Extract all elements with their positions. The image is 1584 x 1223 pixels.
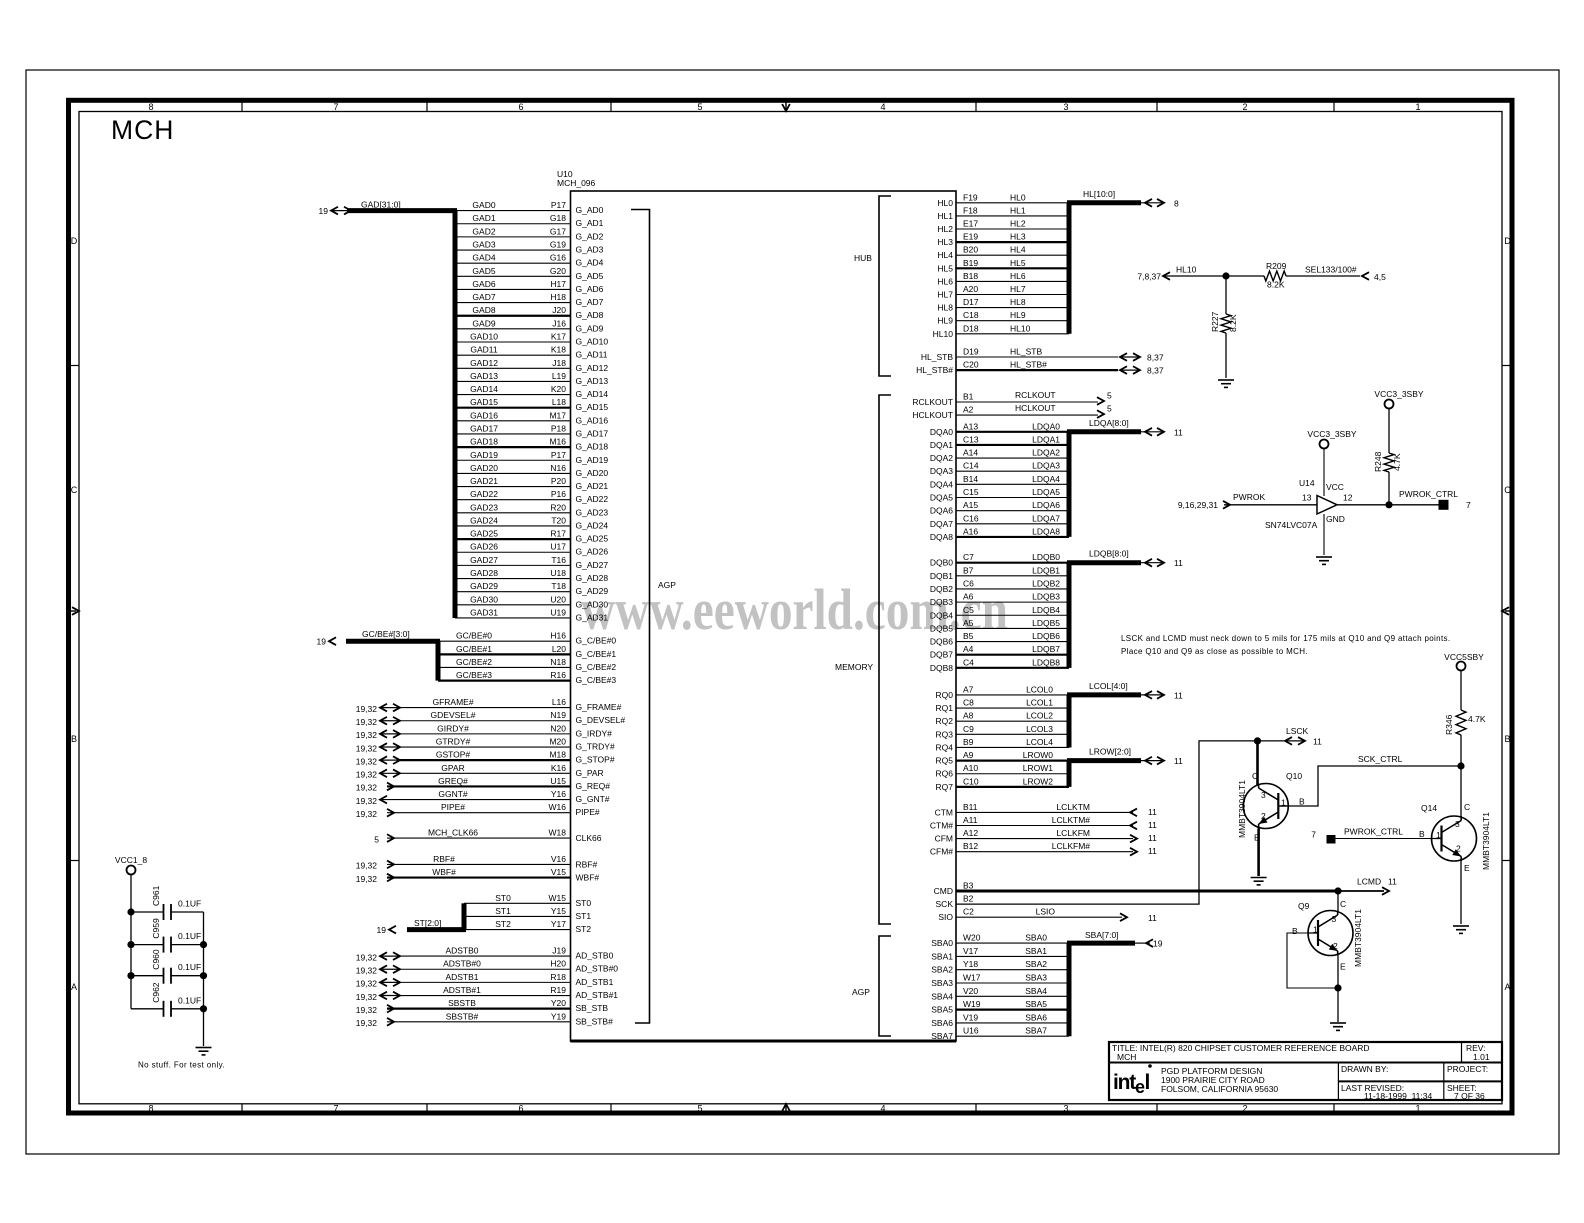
svg-text:G_AD1: G_AD1 [576,218,604,228]
svg-text:8.2K: 8.2K [1228,314,1238,332]
wire GAD5 pin G20 [455,266,604,281]
svg-text:U20: U20 [550,594,566,604]
wire SBA2 pin Y18 [931,959,1069,975]
svg-text:CTM: CTM [935,807,953,817]
svg-text:G_C/BE#2: G_C/BE#2 [576,662,617,672]
svg-text:B: B [1299,797,1305,807]
svg-text:RQ1: RQ1 [936,703,954,713]
svg-text:SBA6: SBA6 [931,1018,953,1028]
svg-text:19,32: 19,32 [356,743,378,753]
svg-text:MCH_CLK66: MCH_CLK66 [428,828,478,838]
svg-text:C15: C15 [963,487,979,497]
svg-text:R16: R16 [550,670,566,680]
svg-text:LDQA1: LDQA1 [1032,434,1060,444]
wire GAD8 pin J20 [455,305,604,320]
svg-text:PWROK: PWROK [1233,492,1265,502]
svg-text:N20: N20 [550,723,566,733]
svg-text:19,32: 19,32 [356,770,378,780]
node SCK_CTRL junction [1457,762,1464,769]
group bracket AGP left [631,210,676,1024]
svg-text:GAD27: GAD27 [470,555,498,565]
svg-text:G19: G19 [550,240,566,250]
svg-text:B3: B3 [963,881,974,891]
bus LROW[2:0] [1067,747,1183,787]
wire DQB6 pin B5 net LDQB6 [930,631,1069,647]
svg-text:G_IRDY#: G_IRDY# [576,728,613,738]
svg-text:SBSTB: SBSTB [448,998,476,1008]
svg-text:7,8,37: 7,8,37 [1137,272,1161,282]
svg-text:R227: R227 [1210,311,1220,332]
svg-text:R209: R209 [1266,261,1287,271]
svg-text:C: C [1340,899,1346,909]
svg-text:R17: R17 [550,529,566,539]
wire PWROK_CTRL to Q14 base [1335,838,1442,840]
svg-text:G_AD23: G_AD23 [576,507,609,517]
svg-text:P16: P16 [551,489,566,499]
svg-text:RQ7: RQ7 [936,782,954,792]
svg-text:e: e [1135,1077,1145,1097]
svg-text:2: 2 [1242,1104,1247,1114]
svg-text:DQB4: DQB4 [930,610,953,620]
svg-text:F19: F19 [963,192,978,202]
wire GREQ# pin U15 [356,776,611,793]
wire GAD7 pin H18 [455,292,604,307]
svg-text:GAD30: GAD30 [470,594,498,604]
wire SBA4 pin V20 [931,986,1069,1002]
svg-text:11-18-1999_11:34: 11-18-1999_11:34 [1364,1091,1432,1101]
svg-text:HL6: HL6 [937,276,953,286]
resistor R209 8.2K [1226,261,1287,290]
wire DQA0 pin A13 net LDQA0 [930,421,1069,437]
svg-text:H16: H16 [550,631,566,641]
svg-text:GAD25: GAD25 [470,529,498,539]
wire HL0 pin F19 [937,192,1069,208]
svg-text:GAD4: GAD4 [472,253,495,263]
svg-text:AD_STB0: AD_STB0 [576,951,614,961]
svg-text:G_AD12: G_AD12 [576,363,609,373]
svg-text:W17: W17 [963,973,981,983]
svg-text:6: 6 [518,1104,523,1114]
svg-text:Q14: Q14 [1421,803,1437,813]
capacitor C960 0.1UF [131,949,204,984]
svg-text:HL2: HL2 [1010,219,1026,229]
svg-text:LCOL0: LCOL0 [1026,684,1053,694]
wire Q9 emitter [1337,956,1339,1023]
svg-text:C7: C7 [963,552,974,562]
svg-text:G18: G18 [550,213,566,223]
svg-text:SBA2: SBA2 [1025,959,1047,969]
svg-text:GAD8: GAD8 [472,305,495,315]
svg-text:HUB: HUB [854,253,872,263]
svg-text:DQA1: DQA1 [930,440,953,450]
svg-text:GND: GND [1326,514,1345,524]
wire PIPE# pin W16 [356,802,600,819]
wire GTRDY# pin M20 [356,737,615,754]
svg-text:R346: R346 [1444,714,1454,735]
svg-text:C5: C5 [963,605,974,615]
svg-text:B11: B11 [963,802,978,812]
svg-text:U18: U18 [550,568,566,578]
svg-text:HL10: HL10 [1176,265,1197,275]
wire DQB4 pin C5 net LDQB4 [930,605,1069,621]
svg-text:MCH: MCH [1117,1052,1136,1062]
wire GAD22 pin P16 [455,489,608,504]
svg-text:8: 8 [148,102,153,112]
svg-text:E19: E19 [963,232,978,242]
wire GC/BE#2 pin N18 [438,657,616,672]
svg-text:GAD11: GAD11 [470,345,498,355]
svg-text:RQ0: RQ0 [936,690,954,700]
svg-text:PROJECT:: PROJECT: [1447,1064,1488,1074]
svg-text:Place Q10 and Q9 as close as p: Place Q10 and Q9 as close as possible to… [1121,647,1308,656]
svg-text:Y19: Y19 [551,1011,566,1021]
svg-text:LSIO: LSIO [1036,907,1056,917]
svg-text:LDQB2: LDQB2 [1032,578,1060,588]
svg-text:G_AD20: G_AD20 [576,468,609,478]
svg-text:HL3: HL3 [937,237,953,247]
svg-text:L20: L20 [552,644,566,654]
svg-text:G_AD10: G_AD10 [576,337,609,347]
svg-text:SCK: SCK [936,899,954,909]
svg-text:8.2K: 8.2K [1267,280,1285,290]
group bracket AGP right [852,936,891,1036]
op-amp U14 SN74LVC07A buffer [1265,478,1353,530]
svg-text:int: int [1113,1071,1136,1094]
svg-text:B: B [1292,926,1298,936]
svg-text:11: 11 [1174,756,1183,766]
svg-text:Y15: Y15 [551,906,566,916]
svg-text:HL8: HL8 [1010,297,1026,307]
svg-text:G_AD9: G_AD9 [576,323,604,333]
svg-text:K18: K18 [551,345,566,355]
svg-text:GAD14: GAD14 [470,384,498,394]
svg-text:1.01: 1.01 [1473,1052,1490,1062]
svg-text:5: 5 [1107,391,1112,401]
svg-text:HL9: HL9 [937,316,953,326]
bus LDQA[8:0] [1067,418,1183,537]
svg-text:VCC5SBY: VCC5SBY [1444,652,1484,662]
border center marker right [1505,610,1513,612]
transistor Q14 MMBT3904LT1 [1419,802,1491,873]
svg-text:V16: V16 [551,854,566,864]
svg-text:19,32: 19,32 [356,796,378,806]
ground Q9 [1330,1022,1346,1024]
wire GAD2 pin G17 [455,226,604,241]
svg-text:HL10: HL10 [1010,323,1031,333]
svg-text:A20: A20 [963,284,978,294]
svg-text:C4: C4 [963,657,974,667]
wire LSCK [1258,726,1323,747]
capacitor C959 0.1UF [131,918,204,953]
svg-text:G_AD8: G_AD8 [576,310,604,320]
wire ADSTB#0 pin H20 [356,959,619,976]
svg-text:HCLKOUT: HCLKOUT [912,410,953,420]
svg-text:G_AD0: G_AD0 [576,205,604,215]
svg-text:C: C [1464,802,1470,812]
svg-text:R19: R19 [550,985,566,995]
wire GAD17 pin P18 [455,423,608,438]
svg-text:11: 11 [1313,737,1322,747]
wire RQ4 pin B9 net LCOL4 [936,737,1069,753]
svg-text:SBA7: SBA7 [931,1031,953,1041]
node LCMD junction [1334,887,1341,894]
svg-text:8,37: 8,37 [1147,353,1164,363]
svg-text:CFM: CFM [935,834,953,844]
wire GAD18 pin M16 [455,437,608,452]
svg-text:B19: B19 [963,258,978,268]
wire HCLKOUT pin A2 [912,403,1112,420]
svg-text:R248: R248 [1373,451,1383,472]
svg-text:A7: A7 [963,684,974,694]
svg-text:L16: L16 [552,697,566,707]
svg-text:LDQB4: LDQB4 [1032,605,1060,615]
wire GAD29 pin T18 [455,581,608,596]
svg-text:G_AD16: G_AD16 [576,415,609,425]
wire CTM pin B11 net LCLKTM [935,802,1158,818]
svg-text:H17: H17 [550,279,566,289]
svg-text:19: 19 [317,637,327,647]
svg-text:3: 3 [1261,790,1266,800]
svg-text:SBA5: SBA5 [1025,999,1047,1009]
svg-text:DQB1: DQB1 [930,571,953,581]
svg-text:LCOL1: LCOL1 [1026,698,1053,708]
svg-text:ST0: ST0 [495,893,511,903]
wire ADSTB1 pin R18 [356,972,614,989]
svg-text:H18: H18 [550,292,566,302]
svg-text:2: 2 [1456,844,1461,854]
svg-text:G_AD6: G_AD6 [576,284,604,294]
svg-text:G_AD7: G_AD7 [576,297,604,307]
svg-text:N18: N18 [550,657,566,667]
svg-text:B: B [1419,829,1425,839]
wire GAD12 pin J18 [455,358,608,373]
svg-text:GAD10: GAD10 [470,332,498,342]
svg-text:3: 3 [1063,102,1068,112]
svg-text:8: 8 [148,1104,153,1114]
svg-text:HL5: HL5 [1010,258,1026,268]
wire SCK pin B2 [936,741,1257,909]
svg-text:B9: B9 [963,737,974,747]
svg-text:MMBT3904LT1: MMBT3904LT1 [1237,780,1247,838]
svg-text:C8: C8 [963,698,974,708]
svg-text:G_AD24: G_AD24 [576,520,609,530]
wire ST0 pin W15 [464,893,591,908]
IC U10 MCH_096 body [571,191,957,1041]
svg-text:5: 5 [1107,404,1112,414]
svg-text:Y17: Y17 [551,919,566,929]
wire GDEVSEL# pin N19 [356,710,626,727]
svg-text:RBF#: RBF# [576,859,598,869]
svg-text:4: 4 [880,1104,885,1114]
svg-text:C959: C959 [151,918,161,939]
svg-text:LCLKFM#: LCLKFM# [1052,841,1091,851]
svg-text:D: D [71,236,78,246]
svg-text:A4: A4 [963,644,974,654]
wire SBA6 pin V19 [931,1012,1069,1028]
svg-text:11: 11 [1148,833,1157,843]
svg-text:19,32: 19,32 [356,783,378,793]
svg-text:G_C/BE#0: G_C/BE#0 [576,636,617,646]
svg-text:GC/BE#3: GC/BE#3 [456,670,492,680]
svg-text:LDQA3: LDQA3 [1032,461,1060,471]
wire GC/BE#1 pin L20 [438,644,616,659]
svg-text:GAD1: GAD1 [472,213,495,223]
svg-text:TITLE: INTEL(R) 820 CHIPSET CU: TITLE: INTEL(R) 820 CHIPSET CUSTOMER REF… [1112,1043,1370,1053]
svg-text:AD_STB#1: AD_STB#1 [576,990,619,1000]
svg-text:SBA4: SBA4 [1025,986,1047,996]
svg-text:SIO: SIO [938,912,953,922]
svg-text:VCC3_3SBY: VCC3_3SBY [1307,429,1356,439]
svg-text:GAD20: GAD20 [470,463,498,473]
svg-text:ADSTB0: ADSTB0 [445,946,478,956]
svg-text:Y16: Y16 [551,789,566,799]
svg-text:G_AD3: G_AD3 [576,245,604,255]
wire GSTOP# pin M18 [356,750,615,767]
wire U14 output PWROK_CTRL [1337,504,1439,506]
svg-text:19,32: 19,32 [356,952,378,962]
svg-text:SBA7: SBA7 [1025,1026,1047,1036]
svg-text:19,32: 19,32 [356,1005,378,1015]
wire Q10 collector [1256,741,1259,786]
svg-text:C20: C20 [963,360,979,370]
svg-text:SB_STB#: SB_STB# [576,1016,614,1026]
svg-text:7: 7 [1466,500,1471,510]
svg-text:MCH: MCH [111,115,174,145]
svg-text:LDQA8: LDQA8 [1032,526,1060,536]
svg-text:13: 13 [1302,493,1312,503]
svg-text:HL0: HL0 [1010,192,1026,202]
svg-text:HL9: HL9 [1010,310,1026,320]
svg-text:11: 11 [1148,846,1157,856]
wire MCH_CLK66 pin W18 [374,828,601,845]
svg-text:DQA5: DQA5 [930,493,953,503]
wire SBA7 pin U16 [931,1026,1069,1042]
svg-text:Y18: Y18 [963,959,978,969]
node cap rail junctions [127,908,207,1012]
svg-text:4,5: 4,5 [1374,272,1386,282]
wire GPAR pin K16 [356,763,604,780]
svg-text:FOLSOM, CALIFORNIA 95630: FOLSOM, CALIFORNIA 95630 [1161,1084,1278,1094]
ground R227 [1218,379,1234,381]
wire HL8 pin D17 [937,297,1069,313]
wire ADSTB#1 pin R19 [356,985,619,1002]
svg-text:19,32: 19,32 [356,861,378,871]
wire CTM# pin A11 net LCLKTM# [930,815,1157,831]
svg-text:G_AD4: G_AD4 [576,258,604,268]
svg-text:D18: D18 [963,323,979,333]
svg-text:B: B [1504,734,1510,744]
wire DQB3 pin A6 net LDQB3 [930,592,1069,608]
svg-text:PWROK_CTRL: PWROK_CTRL [1344,827,1403,837]
wire RQ0 pin A7 net LCOL0 [936,684,1069,700]
svg-text:G_TRDY#: G_TRDY# [576,742,615,752]
svg-text:CLK66: CLK66 [576,833,602,843]
wire SBA3 pin W17 [931,973,1069,989]
svg-text:A5: A5 [963,618,974,628]
svg-text:G_AD30: G_AD30 [576,599,609,609]
svg-text:A14: A14 [963,448,978,458]
svg-text:4: 4 [880,102,885,112]
svg-text:U15: U15 [550,776,566,786]
svg-text:U16: U16 [963,1026,979,1036]
svg-text:GAD2: GAD2 [472,226,495,236]
wire GAD26 pin U17 [455,542,608,557]
wire RBF# pin V16 [356,854,598,871]
svg-text:11: 11 [1148,807,1157,817]
svg-text:19: 19 [319,206,329,216]
note LSCK/LCMD routing [1121,634,1450,656]
svg-text:GAD21: GAD21 [470,476,498,486]
svg-text:SBA2: SBA2 [931,965,953,975]
wire DQB8 pin C4 net LDQB8 [930,657,1069,673]
wire DQA5 pin C15 net LDQA5 [930,487,1069,503]
svg-text:M16: M16 [549,437,566,447]
wire HL10 pin D18 [933,323,1069,339]
wire DQA8 pin A16 net LDQA8 [930,526,1069,542]
svg-text:B12: B12 [963,841,978,851]
svg-text:7: 7 [333,102,338,112]
svg-text:A11: A11 [963,815,978,825]
svg-text:SBA3: SBA3 [1025,973,1047,983]
svg-text:11: 11 [1148,820,1157,830]
wire DQA6 pin A15 net LDQA6 [930,500,1069,516]
svg-text:3: 3 [1063,1104,1068,1114]
svg-text:G_AD18: G_AD18 [576,442,609,452]
wire HL_STB pin D19 [921,347,1164,363]
wire RQ1 pin C8 net LCOL1 [936,698,1069,714]
svg-text:G_AD11: G_AD11 [576,350,608,360]
svg-text:P20: P20 [551,476,566,486]
svg-text:V19: V19 [963,1012,978,1022]
logo intel [1113,1064,1152,1097]
svg-text:HCLKOUT: HCLKOUT [1015,403,1056,413]
svg-text:G_PAR: G_PAR [576,768,604,778]
svg-text:W20: W20 [963,933,981,943]
svg-text:LDQA6: LDQA6 [1032,500,1060,510]
wire VCC1_8 rail [130,875,132,1009]
capacitor C961 0.1UF [131,885,204,920]
svg-text:LDQA4: LDQA4 [1032,474,1060,484]
svg-text:G_C/BE#1: G_C/BE#1 [576,649,617,659]
svg-text:B: B [71,734,77,744]
svg-text:G_DEVSEL#: G_DEVSEL# [576,715,626,725]
svg-text:RBF#: RBF# [433,854,455,864]
svg-text:DQA0: DQA0 [930,427,953,437]
svg-text:19,32: 19,32 [356,1018,378,1028]
svg-text:19,32: 19,32 [356,730,378,740]
svg-text:C2: C2 [963,907,974,917]
svg-text:7: 7 [333,1104,338,1114]
svg-text:7: 7 [1311,830,1316,840]
svg-text:A9: A9 [963,750,974,760]
wire SIO pin C2 net LSIO [938,907,1157,924]
svg-text:5: 5 [697,102,702,112]
svg-text:G_C/BE#3: G_C/BE#3 [576,675,617,685]
svg-text:SCK_CTRL: SCK_CTRL [1358,754,1403,764]
svg-text:GREQ#: GREQ# [438,776,468,786]
svg-text:A: A [71,982,77,992]
svg-text:E: E [1464,863,1470,873]
svg-text:C10: C10 [963,776,979,786]
svg-text:RQ5: RQ5 [936,756,954,766]
wire VCC to U14 [1323,449,1325,497]
resistor R248 4.7K pull-up [1373,409,1402,505]
capacitor C962 0.1UF [131,982,204,1017]
svg-text:MMBT3904LT1: MMBT3904LT1 [1353,909,1363,967]
wire SBA1 pin V17 [931,946,1069,962]
svg-text:LDQB8: LDQB8 [1032,657,1060,667]
svg-text:A: A [1504,982,1510,992]
